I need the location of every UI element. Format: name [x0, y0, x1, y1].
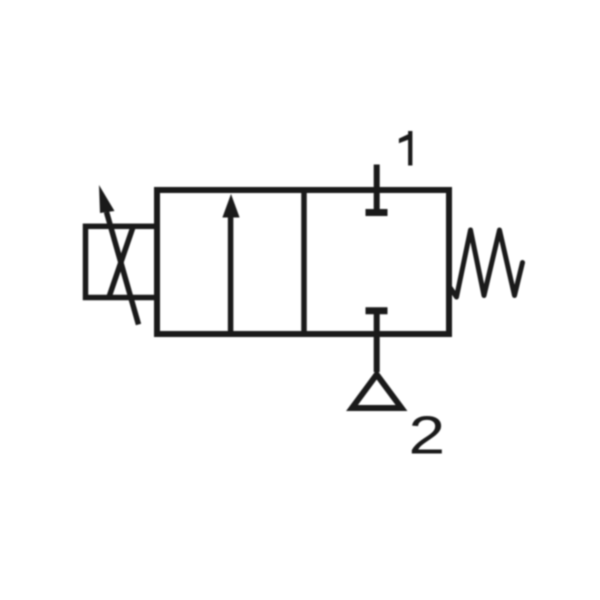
adjustability arrow head [99, 185, 115, 213]
adjustability arrow shaft [107, 212, 139, 325]
return spring [449, 230, 523, 297]
svg-text:2: 2 [408, 404, 445, 465]
exhaust triangle (port 2) [352, 375, 402, 409]
port 1 connection line [374, 165, 380, 213]
proportional solenoid box [86, 226, 158, 297]
solenoid winding diagonal [109, 227, 134, 299]
port 1 blocked seat (T-bar) [366, 209, 388, 216]
position divider wire [301, 190, 307, 334]
port 2 blocked seat (T-bar) [366, 307, 388, 314]
valve body (2-position envelope) [157, 190, 449, 334]
port 2 connection line [374, 311, 380, 372]
label port 1 [399, 131, 413, 166]
flow-path arrow in left chamber [222, 194, 239, 332]
